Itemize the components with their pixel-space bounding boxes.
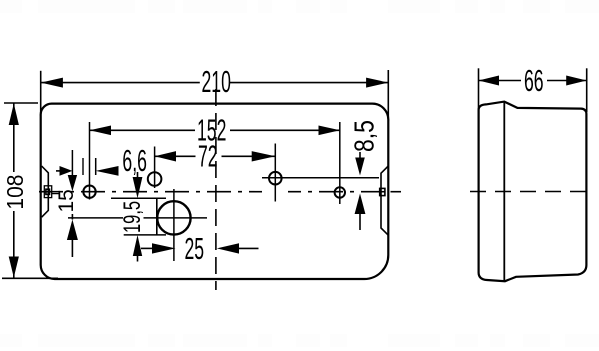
svg-text:66: 66: [524, 64, 544, 98]
svg-text:25: 25: [185, 232, 205, 266]
svg-text:19,5: 19,5: [119, 201, 146, 233]
svg-text:210: 210: [202, 65, 231, 99]
svg-text:72: 72: [198, 139, 218, 173]
svg-text:6,6: 6,6: [122, 144, 146, 178]
svg-text:15: 15: [55, 189, 78, 212]
svg-text:8,5: 8,5: [350, 120, 381, 152]
svg-text:108: 108: [2, 175, 28, 210]
